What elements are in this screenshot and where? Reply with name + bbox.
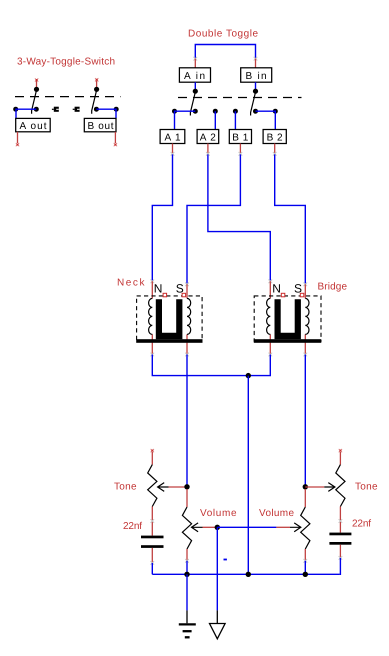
switch SW1 pole B common node dot <box>94 87 99 92</box>
wire B 2 to bridge pickup S <box>275 154 306 284</box>
volume pot P2 (left) <box>182 489 217 563</box>
tone pot P4 resistive track <box>336 465 345 507</box>
svg-text:Tone: Tone <box>355 481 378 492</box>
neck pickup magnet U core <box>156 299 183 339</box>
svg-text:B in: B in <box>246 71 267 82</box>
wire C1 to ground bus <box>151 563 153 574</box>
node A in <box>179 68 210 82</box>
ground bus wire <box>152 573 340 575</box>
volume pot P3 (right) <box>276 489 310 563</box>
svg-text:Neck: Neck <box>117 278 146 289</box>
switch SW1 pole B contact dots <box>94 107 99 112</box>
switch SW1 dashed frame line <box>15 96 121 98</box>
switch SW1 pole A (3-way toggle, left) open pin marker <box>35 78 38 81</box>
wire bus to ground symbol <box>186 574 188 610</box>
wire A contacts to A 1 <box>175 111 196 129</box>
node A 1 <box>160 130 185 144</box>
svg-text:A 2: A 2 <box>200 132 216 143</box>
tone pot P4 open top pin marker <box>339 449 342 452</box>
svg-text:B out: B out <box>88 121 114 132</box>
wire B contacts to B 2 <box>256 111 276 129</box>
junction volume wipers / output node <box>215 525 220 530</box>
wire contacts B to B out <box>96 109 116 118</box>
node A out <box>16 118 51 131</box>
bridge pickup terminal square N <box>281 293 285 297</box>
switch SW1 pole A lever <box>32 91 37 114</box>
neck pickup S pin stub <box>185 283 189 287</box>
svg-text:Double Toggle: Double Toggle <box>188 28 258 39</box>
volume pot P3 resistive track <box>301 507 310 549</box>
node B out <box>84 118 116 131</box>
svg-text:A out: A out <box>20 121 47 132</box>
capacitor C1 22nf (left) <box>141 536 164 565</box>
wire pickup common to ground bus <box>247 376 249 575</box>
neck pickup right coil <box>187 298 191 334</box>
bridge pickup terminal square S <box>300 293 304 297</box>
svg-text:Tone: Tone <box>114 481 137 492</box>
A 2 bottom pin stub <box>207 144 209 154</box>
node B 2 <box>263 130 286 144</box>
bridge pickup N pin stub <box>269 280 273 284</box>
wire contact to B 1 <box>234 111 236 129</box>
neck pickup N pin stub <box>151 280 155 284</box>
svg-text:B 2: B 2 <box>267 132 283 143</box>
switch SW1 middle position contact square 2 <box>73 107 80 112</box>
volume pot P2 wiper arrow <box>192 523 203 532</box>
switch SW2 pole A common node dot <box>193 89 198 94</box>
wire contacts A to A out <box>16 109 36 118</box>
stray blue tick <box>224 559 227 561</box>
B in top pin stub <box>254 57 258 61</box>
B out bottom pin stub <box>114 132 116 143</box>
svg-text:22nf: 22nf <box>352 519 371 530</box>
svg-text:A 1: A 1 <box>165 132 181 143</box>
switch SW2 pole A lever <box>190 93 195 116</box>
volume pot P3 top pin stub <box>304 489 306 507</box>
bridge pickup L2 <box>254 280 321 355</box>
tone pot P1 resistive track <box>148 465 157 507</box>
wire B 1 to neck pickup S <box>187 154 240 284</box>
wire A 2 to bridge pickup N <box>208 154 270 281</box>
bridge pickup S pin stub <box>304 283 308 287</box>
svg-text:Volume: Volume <box>200 508 237 519</box>
A in top pin stub <box>194 57 198 61</box>
junction pickup common <box>246 373 251 378</box>
switch SW1 pole A contact dots <box>13 107 18 112</box>
switch SW2 pole B common node dot <box>253 89 258 94</box>
A 1 bottom pin stub <box>172 144 174 154</box>
svg-text:Bridge: Bridge <box>318 282 348 293</box>
ground <box>179 610 196 637</box>
wire bracket joining A in and B in <box>195 45 255 59</box>
wire P2 bottom to ground bus <box>186 561 188 575</box>
wire contact to A 2 <box>214 111 216 129</box>
svg-text:Volume: Volume <box>259 508 294 519</box>
bridge pickup magnet U core <box>275 299 301 339</box>
switch SW1 pole A top pin stub <box>36 81 38 87</box>
switch SW1 pole A common node dot <box>34 87 39 92</box>
bridge pickup dashed body box <box>254 296 321 341</box>
wire output node down to jack <box>216 527 218 610</box>
tone pot P4 wiper arrow <box>324 483 335 492</box>
node B 1 <box>229 130 251 144</box>
junction left tone/volume node <box>184 484 189 489</box>
bridge pickup left coil <box>267 298 271 334</box>
A out open pin marker <box>16 143 19 146</box>
tone pot P1 open top pin marker <box>151 449 154 452</box>
output jack connector <box>210 610 226 638</box>
bridge pickup right coil <box>305 298 309 334</box>
neck pickup L1 <box>136 280 202 355</box>
wire C2 to ground bus <box>339 558 342 574</box>
junction bus / volume left <box>184 572 189 577</box>
neck pickup terminal square S <box>182 293 186 297</box>
volume pot P2 resistive track <box>182 507 191 549</box>
B out open pin marker <box>114 143 117 146</box>
svg-text:B 1: B 1 <box>232 132 248 143</box>
switch SW2 pole B lever <box>251 93 256 116</box>
junction bus / volume right <box>303 572 308 577</box>
neck pickup dashed body box <box>137 296 203 341</box>
switch SW1 pole B lever <box>92 91 97 114</box>
wire A 1 to neck pickup N <box>152 154 172 281</box>
svg-text:N: N <box>272 282 281 296</box>
B 2 bottom pin stub <box>274 144 276 154</box>
switch SW1 middle position contact square 1 <box>52 107 59 112</box>
junction bus / pickup common <box>246 572 251 577</box>
switch SW1 pole B open pin marker <box>95 78 98 81</box>
wire A in to switch common <box>194 82 196 89</box>
switch SW2 dashed frame line <box>178 97 302 99</box>
volume pot P3 bottom pin stub <box>304 549 306 561</box>
junction right tone/volume node <box>303 484 308 489</box>
neck pickup base bar <box>136 339 202 343</box>
wire bridge S down to right tone/volume node <box>304 353 308 357</box>
tone pot P4 bottom pin stub <box>339 507 341 533</box>
svg-text:3-Way-Toggle-Switch: 3-Way-Toggle-Switch <box>17 57 115 68</box>
wire neck N to bridge N common <box>151 353 155 357</box>
capacitor C2 22nf (right) <box>329 533 351 560</box>
tone pot P1 wiper arrow <box>158 483 169 492</box>
node A 2 <box>197 130 219 144</box>
wire P3 bottom to ground bus <box>304 561 306 575</box>
tone pot P1 bottom pin stub <box>151 507 153 536</box>
switch SW1 pole B top pin stub <box>96 81 98 87</box>
A out bottom pin stub <box>17 132 19 143</box>
tone pot P4 (right) <box>305 449 345 533</box>
wire volume wipers interconnect <box>217 526 276 528</box>
volume pot P2 bottom pin stub <box>186 549 188 561</box>
wire neck S down to left tone/volume node <box>185 353 189 357</box>
volume pot P3 wiper arrow <box>290 523 301 532</box>
volume pot P2 top pin stub <box>186 489 188 507</box>
wire B in to switch common <box>255 82 257 89</box>
switch SW2 contact dots <box>172 109 177 114</box>
B 1 bottom pin stub <box>239 144 241 154</box>
svg-text:N: N <box>154 282 163 296</box>
neck pickup terminal square N <box>163 293 167 297</box>
bridge pickup base bar <box>254 339 321 343</box>
node B in <box>241 68 272 82</box>
tone pot P1 (left) <box>148 449 187 536</box>
neck pickup left coil <box>149 298 153 334</box>
svg-text:22nf: 22nf <box>123 521 142 532</box>
